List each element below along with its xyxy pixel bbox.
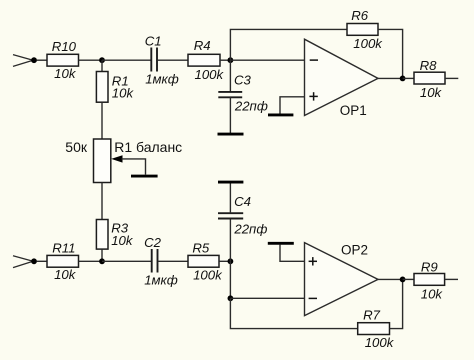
wire [101,249,103,261]
resistor R11 10k [47,241,79,283]
svg-text:10k: 10k [112,85,135,100]
svg-text:R5: R5 [192,241,210,256]
svg-text:R10: R10 [52,39,77,54]
resistor R10 10k [47,39,79,81]
wire (feedback up) [230,29,347,60]
svg-text:10k: 10k [111,233,134,248]
wire [229,97,231,134]
ground (C4) [218,181,243,184]
ground (C3) [218,133,244,136]
ground (wiper) [131,175,158,178]
svg-text:C1: C1 [145,34,162,49]
svg-text:R6: R6 [351,8,369,23]
wire [37,59,48,61]
svg-text:10k: 10k [54,267,77,282]
svg-text:C4: C4 [234,194,251,209]
wire (OP2 non-inverting input) [280,245,305,262]
node OUT2 junction [400,277,406,283]
wire (node B down to C3) [229,60,231,91]
svg-text:R1: R1 [114,139,132,155]
svg-text:1мкф: 1мкф [145,71,179,86]
node: input 2 junction [31,258,37,264]
wire [158,59,188,61]
wire [102,260,151,262]
svg-text:100k: 100k [193,268,223,283]
resistor R1 10k [96,72,134,103]
resistor R3 10k [96,220,133,250]
node B junction [228,57,234,63]
node D junction [99,258,105,264]
svg-text:100k: 100k [353,36,383,51]
op-amp OP1 [305,39,379,118]
svg-text:100k: 100k [365,335,395,350]
resistor R8 10k [414,58,445,100]
svg-text:R8: R8 [420,58,438,73]
node OUT1 junction [400,76,406,82]
svg-text:C2: C2 [144,235,162,250]
svg-text:R9: R9 [421,259,439,274]
ground (OP1 +) [268,113,293,116]
svg-text:OP2: OP2 [341,243,368,258]
resistor R5 100k [188,241,223,283]
wire (node E down) [229,261,231,298]
resistor R6 100k [347,8,383,51]
capacitor C2 1мкф [144,235,178,288]
svg-text:10k: 10k [420,85,443,100]
wire [37,260,48,262]
potentiometer wiper arrow [111,155,145,174]
input terminal IN1 [13,55,33,67]
ground (OP2 +) [268,242,294,245]
capacitor C3 22пф [218,72,268,113]
capacitor C4 22пф [218,194,267,237]
input terminal IN2 [13,256,33,268]
capacitor C1 1мкф [145,34,179,87]
op-amp OP2 [305,243,379,316]
svg-text:50к: 50к [65,139,88,155]
svg-text:C3: C3 [234,72,252,87]
wire (OP1 non-inverting input) [280,97,305,114]
wire [101,102,103,139]
svg-text:10k: 10k [54,66,77,81]
wire (to OP1 inverting input) [230,59,304,61]
resistor R4 100k [188,38,224,82]
svg-text:100k: 100k [194,67,224,82]
wire [101,183,103,220]
wire [79,260,103,262]
wire (R7 feedback to output node) [390,279,403,328]
wire [403,77,414,79]
wire (to OP2 inverting input) [230,297,304,299]
wire (node E up to C4) [229,219,231,262]
resistor R9 10k [414,259,445,301]
svg-text:22пф: 22пф [233,221,267,236]
potentiometer R1 баланс 50к [65,139,182,183]
wire [219,260,230,262]
wire [445,278,458,280]
wire [102,59,151,61]
wire (OP2 output) [378,278,403,280]
node E junction [228,258,234,264]
svg-text:22пф: 22пф [234,99,268,114]
wire (feedback to output node) [378,29,403,78]
svg-text:R11: R11 [52,241,75,256]
node: input 1 junction [31,57,37,63]
resistor R7 100k [358,308,395,351]
wire [79,59,103,61]
wire [158,260,188,262]
svg-text:R7: R7 [363,308,381,323]
svg-text:OP1: OP1 [340,103,367,118]
svg-text:10k: 10k [421,287,444,302]
wire [403,278,414,280]
wire (node A down) [101,60,103,71]
wire (OP1 output) [378,77,403,79]
wire [229,183,231,213]
wire [445,77,458,79]
svg-text:R4: R4 [194,38,211,53]
node A junction [99,57,105,63]
wire (node F down to R7 line) [230,298,357,328]
svg-text:баланс: баланс [136,139,182,155]
svg-text:1мкф: 1мкф [144,273,178,288]
wire [220,59,230,61]
node F junction [228,295,234,301]
